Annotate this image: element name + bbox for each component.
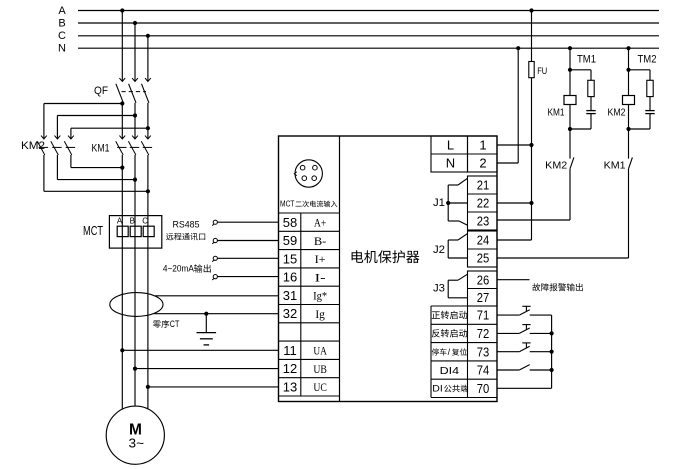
wire to KM2 coil xyxy=(628,70,630,96)
wire RS485 B- pigtail to 59 xyxy=(212,238,278,244)
svg-text:A+: A+ xyxy=(314,216,327,230)
svg-text:KM1: KM1 xyxy=(92,142,110,154)
wire B drop xyxy=(134,23,136,81)
coil KM2 xyxy=(623,96,635,105)
wire QF-A to KM2 pole1 top xyxy=(44,104,122,139)
wire RS485 A+ pigtail to 58 xyxy=(212,220,278,226)
node KM out A xyxy=(120,166,124,170)
svg-text:B: B xyxy=(58,17,65,29)
connector MCT plug xyxy=(294,160,322,187)
wire N down to KM2 branch split xyxy=(628,48,630,70)
wire 26 alarm stub xyxy=(497,279,530,281)
contactor KM1 main contacts xyxy=(116,136,152,155)
svg-text:N: N xyxy=(58,43,66,55)
node KM2 branch split xyxy=(626,68,630,72)
wire phase B down xyxy=(134,155,136,406)
svg-text:QF: QF xyxy=(94,85,108,97)
svg-text:4~20mA: 4~20mA xyxy=(163,264,195,275)
node ground tap xyxy=(204,312,208,316)
label KM1 contactor xyxy=(92,142,110,154)
CT window A xyxy=(117,226,128,236)
svg-text:I-: I- xyxy=(315,270,326,284)
wire TM1 branch bottom xyxy=(570,114,591,129)
wire phase A down xyxy=(121,155,123,410)
label MCT C xyxy=(142,216,148,225)
protector divider left xyxy=(339,136,341,402)
bus C phase line xyxy=(78,35,659,37)
wire KM1 branch to interlock xyxy=(569,129,571,159)
label motor M xyxy=(129,421,142,438)
motor M circle xyxy=(106,406,164,464)
svg-text:KM2: KM2 xyxy=(545,159,567,171)
node J1 common xyxy=(446,201,450,205)
svg-text:A: A xyxy=(117,216,123,225)
label KM2 contactor xyxy=(21,140,45,152)
transformer zero-seq CT ellipse xyxy=(110,293,163,317)
node UC tap xyxy=(146,385,150,389)
node KM1 branch join xyxy=(568,127,572,131)
ground xyxy=(197,314,217,345)
wire L terminal xyxy=(497,144,532,146)
node UA tap xyxy=(120,348,124,352)
terminal labels left block xyxy=(283,215,327,395)
svg-text:12: 12 xyxy=(283,361,297,376)
wire fuse line down to 24 xyxy=(497,203,532,240)
wire button common xyxy=(497,315,552,388)
wire UA to 11 xyxy=(122,349,278,351)
svg-text:22: 22 xyxy=(477,196,490,211)
node N-bus tap for terminal 2 xyxy=(516,46,520,50)
CT window C xyxy=(143,226,154,236)
wire C drop xyxy=(147,36,149,81)
bus A phase line xyxy=(78,10,659,12)
label J3 xyxy=(433,283,445,295)
contact KM2 interlock xyxy=(570,157,574,168)
label fault alarm output xyxy=(532,283,582,291)
svg-text:MCT: MCT xyxy=(280,199,295,208)
contact KM1 interlock xyxy=(629,157,633,168)
op-amp U1 protector outer box xyxy=(279,136,498,402)
label MCT A xyxy=(117,216,123,225)
svg-text:A: A xyxy=(58,5,66,17)
svg-text:L: L xyxy=(447,138,454,153)
label TM1 xyxy=(577,53,596,65)
wire TM2 branch top xyxy=(629,70,651,81)
svg-text:TM1: TM1 xyxy=(577,53,596,65)
CT window B xyxy=(130,226,141,236)
button forward start 71 xyxy=(497,306,552,315)
svg-text:RS485: RS485 xyxy=(173,219,200,230)
wire 4-20mA I+ pigtail to 15 xyxy=(212,256,278,262)
svg-text:B: B xyxy=(130,216,135,225)
node KM out C xyxy=(146,189,150,193)
breaker QF 3-pole xyxy=(116,78,151,139)
node KM1 branch split xyxy=(568,68,572,72)
label MCT xyxy=(83,223,103,238)
svg-text:27: 27 xyxy=(477,290,490,305)
label DI4 xyxy=(440,366,460,377)
wire UC to 13 xyxy=(148,386,279,388)
svg-text:1: 1 xyxy=(479,138,486,153)
svg-text:CT: CT xyxy=(170,319,180,329)
svg-text:C: C xyxy=(58,30,66,42)
label stop-reset xyxy=(432,347,467,357)
wire Ig to 32 xyxy=(154,313,279,315)
node N-bus tap KM1 branch xyxy=(568,46,572,50)
wire KM2 coil down xyxy=(628,105,630,130)
wire QF-B to KM2 pole2 top xyxy=(57,116,135,139)
label 4-20mA out xyxy=(163,264,211,275)
label J2 xyxy=(433,244,445,256)
svg-text:UA: UA xyxy=(313,344,327,358)
svg-text:59: 59 xyxy=(283,233,297,248)
node UB tap xyxy=(133,367,137,371)
svg-text:70: 70 xyxy=(477,381,490,396)
svg-text:KM1: KM1 xyxy=(604,159,626,171)
terminal numbers right block xyxy=(477,138,490,396)
svg-text:KM2: KM2 xyxy=(21,140,45,152)
wire TM1 mid xyxy=(590,97,592,111)
label J1 xyxy=(433,197,445,209)
wire phase C down xyxy=(147,155,149,409)
terminal grid left block xyxy=(279,213,340,396)
label forward start xyxy=(432,311,467,319)
node KM out B xyxy=(133,178,137,182)
terminal grid right block xyxy=(431,136,497,398)
label N xyxy=(58,43,66,55)
svg-text:N: N xyxy=(446,156,455,171)
label KM2 coil xyxy=(608,107,626,119)
node KM2 branch join xyxy=(626,127,630,131)
resistor TM2 xyxy=(647,80,653,96)
svg-text:58: 58 xyxy=(283,215,297,230)
svg-text:25: 25 xyxy=(477,251,490,266)
label RS485 xyxy=(173,219,200,230)
svg-text:Ig: Ig xyxy=(315,307,325,321)
bus B phase line xyxy=(78,22,659,24)
wire 22 terminal xyxy=(497,202,532,204)
wire KM2 pole3 bottom xyxy=(71,155,122,168)
svg-text:J2: J2 xyxy=(433,244,445,256)
label A xyxy=(58,5,66,17)
svg-text:UB: UB xyxy=(313,362,327,376)
node QF-A out xyxy=(120,101,124,105)
node C-tap xyxy=(146,34,150,38)
svg-text:J3: J3 xyxy=(433,283,445,295)
switch DI4 74 xyxy=(497,365,552,370)
label B xyxy=(58,17,65,29)
wire QF-C to KM2 pole3 top xyxy=(71,128,148,139)
wire A drop xyxy=(121,11,123,82)
svg-text:MCT: MCT xyxy=(83,223,103,238)
capacitor TM1 xyxy=(586,111,595,114)
svg-text:21: 21 xyxy=(477,178,490,193)
wire TM2 branch bottom xyxy=(629,114,651,129)
wire A-bus to fuse xyxy=(531,11,533,62)
label N xyxy=(446,156,455,171)
svg-text:J1: J1 xyxy=(433,197,445,209)
label TM2 xyxy=(638,53,657,65)
svg-text:DI: DI xyxy=(432,383,443,393)
label MCT secondary input xyxy=(280,199,337,208)
label L xyxy=(447,138,454,153)
label KM1 coil xyxy=(548,107,565,119)
wire N to terminal 2 xyxy=(497,48,518,163)
svg-text:71: 71 xyxy=(477,308,490,323)
svg-text:Ig*: Ig* xyxy=(313,289,327,303)
wire fuse to L terminal xyxy=(531,78,533,145)
wire interlock to 25 xyxy=(497,169,629,258)
contactor KM2 main contacts xyxy=(37,136,75,155)
svg-text:FU: FU xyxy=(537,66,547,77)
node button common 74 xyxy=(550,368,554,372)
breaker QF linkage xyxy=(122,91,147,93)
node QF-B out xyxy=(133,113,137,117)
button reverse start 72 xyxy=(497,325,552,334)
node N-bus tap KM2 branch xyxy=(626,46,630,50)
svg-text:24: 24 xyxy=(477,233,490,248)
wire KM1 coil down xyxy=(569,105,571,130)
resistor TM1 xyxy=(588,80,594,96)
svg-text:KM2: KM2 xyxy=(608,107,626,119)
svg-text:74: 74 xyxy=(477,363,490,378)
relay J2 contact xyxy=(448,234,467,258)
svg-text:2: 2 xyxy=(479,156,486,171)
svg-text:B-: B- xyxy=(314,234,327,248)
svg-text:26: 26 xyxy=(477,272,490,287)
wire interlock to 23 xyxy=(497,169,570,220)
svg-text:13: 13 xyxy=(283,380,297,395)
label reverse start xyxy=(432,329,467,337)
svg-text:UC: UC xyxy=(313,380,327,394)
svg-text:DI4: DI4 xyxy=(440,366,460,377)
relay J1 contact xyxy=(448,178,467,225)
wire KM2 pole1 bottom xyxy=(44,155,148,191)
node 22 tap xyxy=(529,201,533,205)
wire TM1 branch top xyxy=(570,70,591,81)
node B-tap xyxy=(133,21,137,25)
svg-text:73: 73 xyxy=(477,344,490,359)
wire KM2 branch to interlock xyxy=(628,129,630,159)
svg-text:31: 31 xyxy=(283,288,297,303)
label zero-seq CT xyxy=(153,319,180,329)
svg-text:32: 32 xyxy=(283,306,297,321)
label motor 3~ xyxy=(129,435,145,450)
svg-text:I+: I+ xyxy=(315,252,326,266)
capacitor TM2 xyxy=(645,111,654,114)
node button common 73 xyxy=(550,350,554,354)
node A-tap xyxy=(120,8,124,12)
label MCT B xyxy=(130,216,135,225)
label DI common xyxy=(432,383,468,393)
svg-text:23: 23 xyxy=(477,214,490,229)
svg-text:15: 15 xyxy=(283,251,297,266)
wire Ig* to 31 xyxy=(155,295,279,297)
svg-text:C: C xyxy=(142,216,148,225)
node QF-C out xyxy=(146,126,150,130)
wire UB to 12 xyxy=(135,368,279,370)
label RS485 port xyxy=(166,233,205,240)
svg-text:KM1: KM1 xyxy=(548,107,565,119)
bus N neutral line xyxy=(78,47,659,49)
wire fuse line down to 22 xyxy=(531,145,533,203)
coil KM1 xyxy=(564,96,576,105)
svg-text:16: 16 xyxy=(283,270,297,285)
fuse FU xyxy=(529,62,534,78)
wire 4-20mA I- pigtail to 16 xyxy=(212,275,278,281)
node button common 72 xyxy=(550,331,554,335)
label motor protector xyxy=(352,250,420,263)
label KM2 interlock xyxy=(545,159,567,171)
svg-text:11: 11 xyxy=(283,343,297,358)
wire KM2 pole2 bottom xyxy=(57,155,135,180)
label FU xyxy=(537,66,547,77)
relay J3 contact xyxy=(448,274,467,298)
label KM1 interlock xyxy=(604,159,626,171)
svg-text:/: / xyxy=(448,347,451,357)
wire N down to KM1 branch split xyxy=(569,48,571,70)
label C xyxy=(58,30,66,42)
button stop-reset 73 xyxy=(497,343,552,352)
transformer MCT box xyxy=(109,216,161,249)
node L tap xyxy=(529,143,533,147)
label QF xyxy=(94,85,108,97)
wire to KM1 coil xyxy=(569,70,571,96)
svg-text:3~: 3~ xyxy=(129,435,145,450)
node A-bus fuse tap xyxy=(529,8,533,12)
svg-text:72: 72 xyxy=(477,326,490,341)
wire TM2 mid xyxy=(649,97,651,111)
svg-text:TM2: TM2 xyxy=(638,53,657,65)
